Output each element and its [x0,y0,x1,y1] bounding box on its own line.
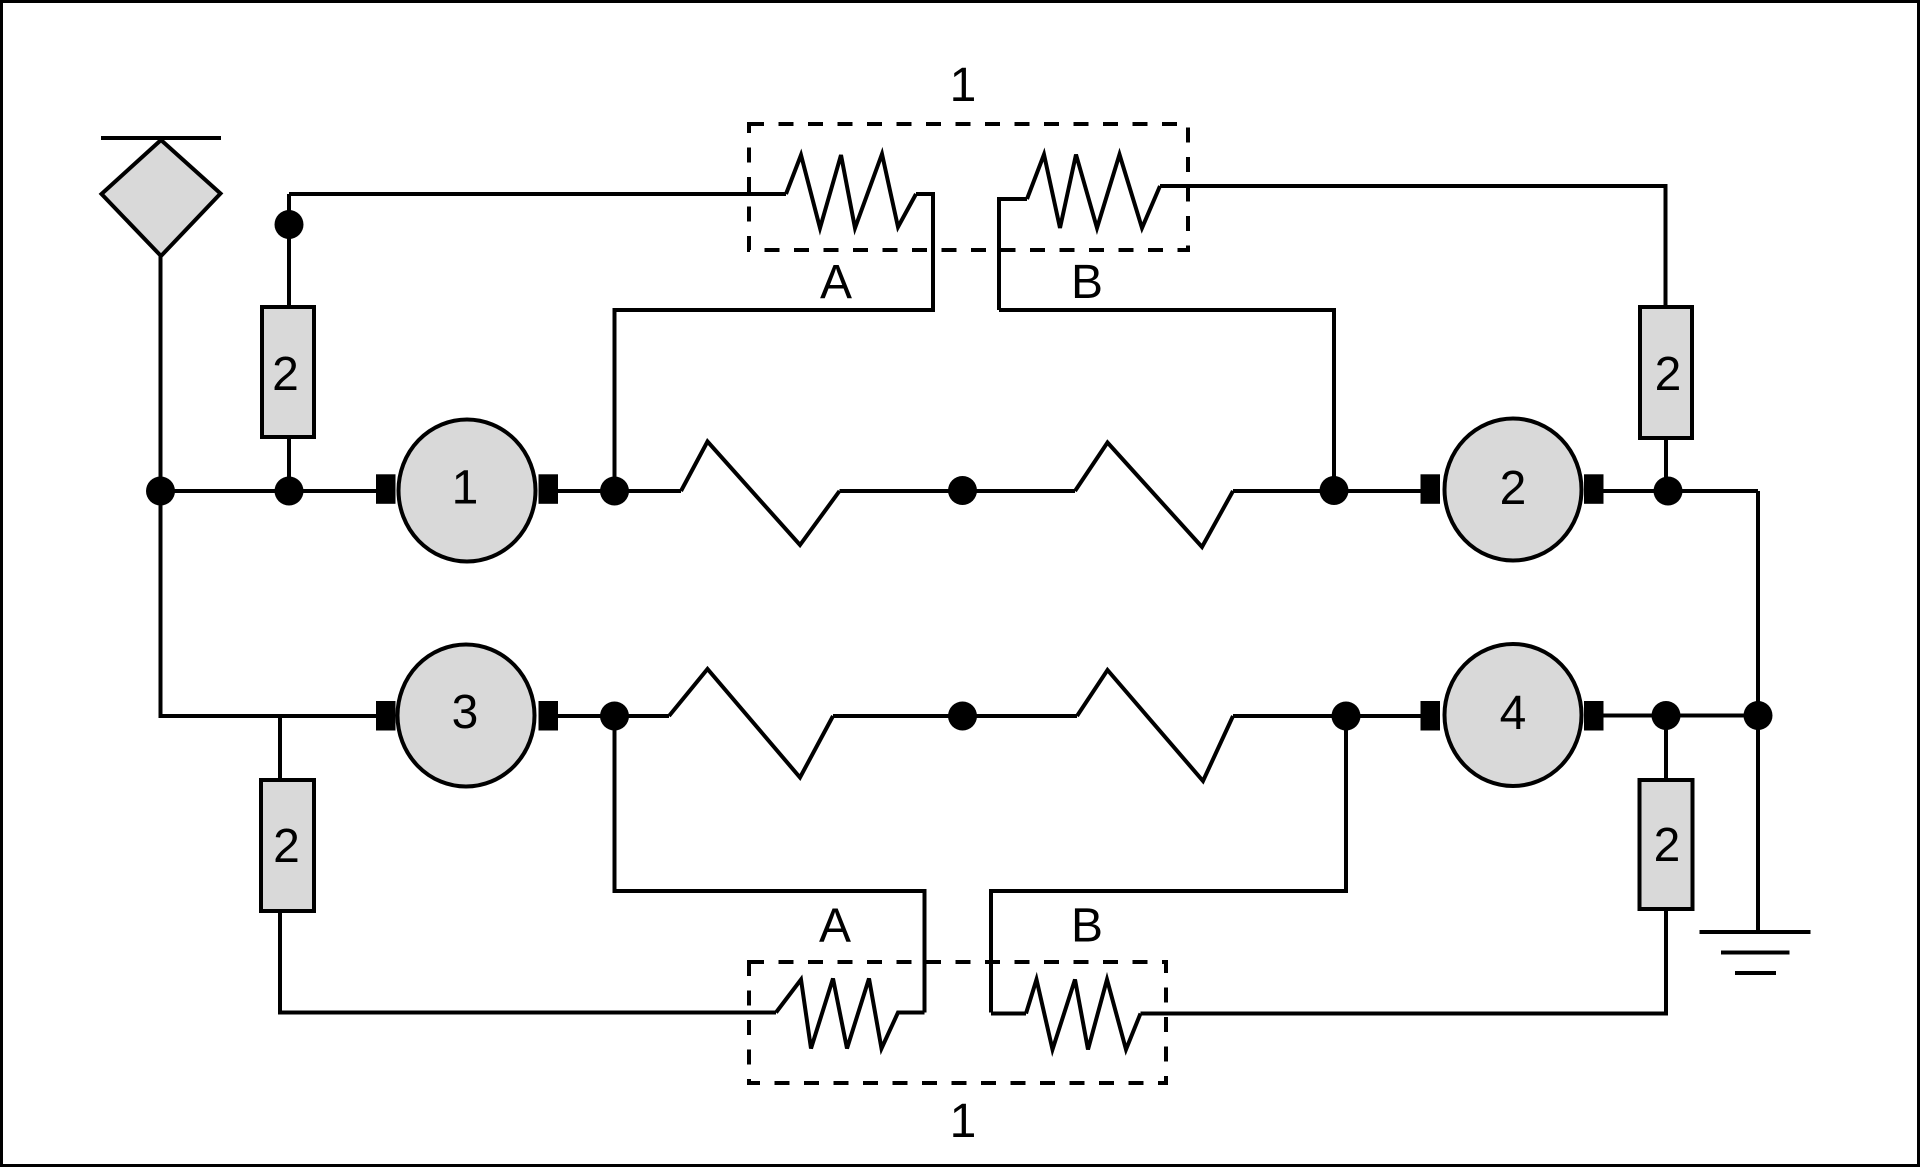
wire: row2 middle [833,714,1077,718]
wire: bottom-right column lower [1143,909,1666,1014]
source symbol (diamond) [102,140,221,256]
source top bar [101,136,221,140]
resistor B (bottom zigzag) [1026,980,1141,1050]
resistor A (top zigzag) [786,154,916,228]
svg-text:2: 2 [1500,462,1527,515]
resistor (row2 right zigzag) [1077,670,1233,781]
resistor 2 (top-right box) [1640,307,1692,438]
wire: right drop to row2 [1756,491,1760,716]
node: row2 middle [948,702,977,731]
wire: resistor B left lead [999,199,1027,310]
svg-text:A: A [820,256,852,309]
wire: to resistor A left lead [289,192,786,196]
wire: bottom-right column upper [1664,716,1668,781]
wire: row2 circle3 to zigzag [557,714,669,718]
resistor (row2 left zigzag) [669,669,833,778]
wire: row1 middle [840,489,1076,493]
resistor 2 (bottom-right box) [1640,780,1693,909]
svg-text:2: 2 [273,820,300,873]
resistor (row1 right zigzag) [1075,443,1233,548]
wire: left rail vertical [161,256,377,716]
svg-text:2: 2 [1654,819,1681,872]
wire: top-right column lower [1664,438,1668,491]
motor 3 [376,645,558,787]
node: resistor 2 bottom / row1 junction [275,477,304,506]
wire: bottom B left lead [991,1012,1026,1016]
node: row1 right of motor 2 [1654,477,1683,506]
node: row2 far right [1744,701,1773,730]
wire: resistor A right lead down to row1 [615,194,934,491]
node: row2 right of motor 3 [600,702,629,731]
wire: top-left column upper [287,194,291,307]
svg-text:A: A [819,900,851,953]
resistor 2 (top-left box) [262,307,314,437]
wire: top-left column lower [287,437,291,491]
wire: row1 to motor 2 [1233,489,1421,493]
svg-text:B: B [1071,900,1103,953]
wire: bottom-left branch lower [278,911,282,1015]
wire: bottom B right lead [1141,1012,1667,1016]
wire: link row2 to bottom resistor B [991,716,1346,1013]
motor 1 [376,420,558,562]
svg-text:4: 4 [1500,687,1527,740]
coupling box 1 (bottom dashed) [749,962,1166,1083]
node: row1 left of motor 2 [1320,476,1349,505]
wire: row1 circle1 to zigzag [557,489,681,493]
resistor 2 (bottom-left box) [261,780,314,911]
motor 2 [1421,419,1604,561]
svg-text:2: 2 [272,348,299,401]
node: row1 right of motor 1 [600,477,629,506]
node: row2 right of motor 4 [1652,701,1681,730]
svg-text:1: 1 [452,462,479,515]
wire: row1 left [159,489,377,493]
node: row1 middle [948,476,977,505]
node: row2 left of motor 4 [1332,702,1361,731]
node: left rail / row1 junction [146,477,175,506]
coupling box 1 (top dashed) [749,124,1188,250]
resistor (row1 left zigzag) [681,442,840,546]
ground [1700,716,1811,974]
wire: row2 to motor 4 [1233,714,1421,718]
svg-text:2: 2 [1655,348,1682,401]
svg-text:B: B [1071,256,1103,309]
resistor A (bottom zigzag) [776,979,925,1049]
wire: link row2 to bottom resistor A [615,716,925,1013]
svg-text:1: 1 [950,59,977,112]
node: above resistor 2 (top-left) [275,210,304,239]
svg-text:1: 1 [950,1095,977,1148]
resistor B (top zigzag) [1027,155,1160,229]
wire: bottom left horizontal [278,1011,776,1015]
svg-text:3: 3 [452,686,479,739]
wire: B lower horizontal to row1 [999,310,1334,491]
motor 4 [1421,644,1604,786]
wire: row2 right [1603,714,1758,718]
wire: bottom-left branch upper [278,716,282,780]
wire: resistor B right lead to top-right column [1160,186,1666,307]
wire: row1 right [1603,489,1758,493]
